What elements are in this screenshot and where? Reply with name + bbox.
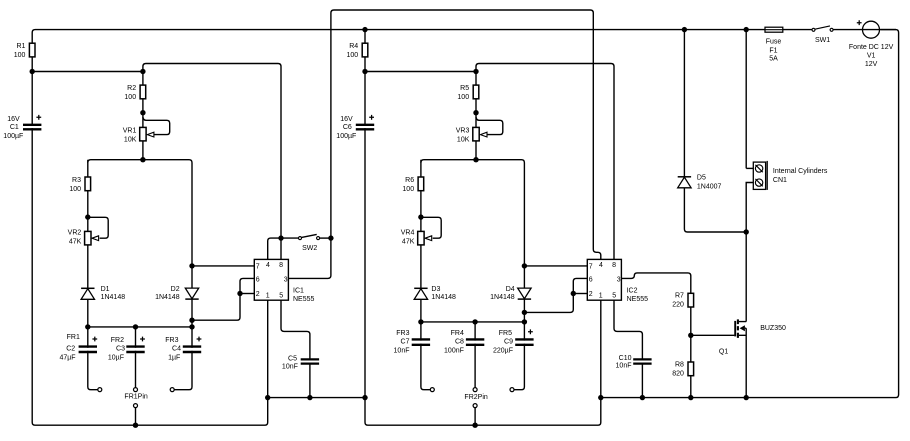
svg-text:7: 7 [589, 264, 593, 271]
svg-text:47K: 47K [69, 239, 82, 246]
svg-text:R6: R6 [405, 177, 414, 184]
svg-text:C2: C2 [66, 346, 75, 353]
svg-text:1N4148: 1N4148 [101, 294, 126, 301]
svg-text:R3: R3 [72, 177, 81, 184]
svg-text:C4: C4 [172, 346, 181, 353]
svg-text:100: 100 [457, 94, 469, 101]
svg-text:D1: D1 [101, 286, 110, 293]
svg-text:7: 7 [256, 264, 260, 271]
svg-text:BUZ350: BUZ350 [760, 325, 786, 332]
svg-text:C5: C5 [288, 355, 297, 362]
svg-text:V1: V1 [867, 53, 876, 60]
svg-text:R1: R1 [16, 43, 25, 50]
svg-text:R5: R5 [460, 85, 469, 92]
svg-text:1N4148: 1N4148 [155, 294, 180, 301]
svg-text:Internal Cylinders: Internal Cylinders [773, 168, 828, 175]
svg-text:8: 8 [279, 262, 283, 269]
svg-text:SW2: SW2 [302, 245, 317, 252]
svg-text:D4: D4 [506, 286, 515, 293]
svg-text:1N4148: 1N4148 [490, 294, 515, 301]
svg-text:VR1: VR1 [123, 128, 137, 135]
svg-text:FR5: FR5 [499, 330, 512, 337]
svg-text:D5: D5 [697, 175, 706, 182]
svg-text:D3: D3 [431, 286, 440, 293]
svg-text:10nF: 10nF [616, 363, 632, 370]
svg-text:2: 2 [256, 291, 260, 298]
svg-text:VR4: VR4 [401, 230, 415, 237]
svg-text:C6: C6 [343, 124, 352, 131]
svg-text:FR3: FR3 [396, 330, 409, 337]
svg-text:FR2: FR2 [111, 337, 124, 344]
svg-text:5: 5 [612, 293, 616, 300]
svg-text:5: 5 [279, 293, 283, 300]
svg-text:100: 100 [347, 52, 359, 59]
svg-text:10µF: 10µF [108, 355, 124, 362]
svg-text:47K: 47K [402, 239, 415, 246]
svg-text:R7: R7 [675, 293, 684, 300]
svg-text:C7: C7 [401, 338, 410, 345]
svg-text:R4: R4 [349, 43, 358, 50]
svg-text:1: 1 [599, 293, 603, 300]
svg-text:12V: 12V [865, 61, 878, 68]
svg-text:Fonte DC 12V: Fonte DC 12V [849, 44, 894, 51]
svg-text:100: 100 [124, 94, 136, 101]
svg-text:NE555: NE555 [627, 296, 649, 303]
svg-text:FR1: FR1 [67, 334, 80, 341]
svg-text:10nF: 10nF [282, 364, 298, 371]
svg-text:1N4148: 1N4148 [431, 294, 456, 301]
svg-text:D2: D2 [171, 286, 180, 293]
svg-text:1N4007: 1N4007 [697, 184, 722, 191]
svg-text:6: 6 [256, 277, 260, 284]
svg-text:10K: 10K [124, 136, 137, 143]
svg-text:100: 100 [14, 52, 26, 59]
svg-text:FR3: FR3 [165, 337, 178, 344]
svg-text:CN1: CN1 [773, 177, 787, 184]
svg-text:220µF: 220µF [493, 347, 513, 354]
svg-text:VR2: VR2 [68, 230, 82, 237]
svg-text:Fuse: Fuse [766, 39, 782, 46]
svg-text:VR3: VR3 [456, 128, 470, 135]
svg-text:4: 4 [266, 262, 270, 269]
svg-text:1: 1 [266, 293, 270, 300]
svg-text:8: 8 [612, 262, 616, 269]
svg-text:10K: 10K [457, 136, 470, 143]
svg-text:C10: C10 [619, 355, 632, 362]
svg-text:4: 4 [599, 262, 603, 269]
svg-text:Q1: Q1 [719, 349, 728, 356]
svg-text:3: 3 [617, 277, 621, 284]
svg-text:C3: C3 [116, 346, 125, 353]
svg-text:C8: C8 [455, 338, 464, 345]
svg-text:IC2: IC2 [627, 287, 638, 294]
svg-text:R2: R2 [127, 85, 136, 92]
svg-text:F1: F1 [769, 47, 777, 54]
svg-text:10nF: 10nF [394, 347, 410, 354]
svg-text:FR4: FR4 [451, 330, 464, 337]
svg-text:NE555: NE555 [293, 296, 315, 303]
svg-text:6: 6 [589, 277, 593, 284]
svg-text:820: 820 [672, 371, 684, 378]
svg-text:16V: 16V [7, 116, 20, 123]
svg-text:220: 220 [672, 302, 684, 309]
svg-text:5A: 5A [769, 56, 778, 63]
svg-text:C9: C9 [504, 338, 513, 345]
svg-text:R8: R8 [675, 362, 684, 369]
svg-text:SW1: SW1 [815, 37, 830, 44]
svg-text:16V: 16V [340, 116, 353, 123]
svg-text:100µF: 100µF [3, 133, 23, 140]
svg-text:1µF: 1µF [168, 355, 180, 362]
svg-text:100nF: 100nF [444, 347, 464, 354]
svg-text:3: 3 [284, 277, 288, 284]
svg-text:IC1: IC1 [293, 287, 304, 294]
svg-text:47µF: 47µF [59, 355, 75, 362]
svg-text:C1: C1 [10, 124, 19, 131]
svg-text:FR1Pin: FR1Pin [124, 394, 147, 401]
svg-text:100µF: 100µF [336, 133, 356, 140]
svg-text:2: 2 [589, 291, 593, 298]
svg-text:100: 100 [402, 186, 414, 193]
svg-text:100: 100 [69, 186, 81, 193]
svg-text:FR2Pin: FR2Pin [464, 394, 487, 401]
